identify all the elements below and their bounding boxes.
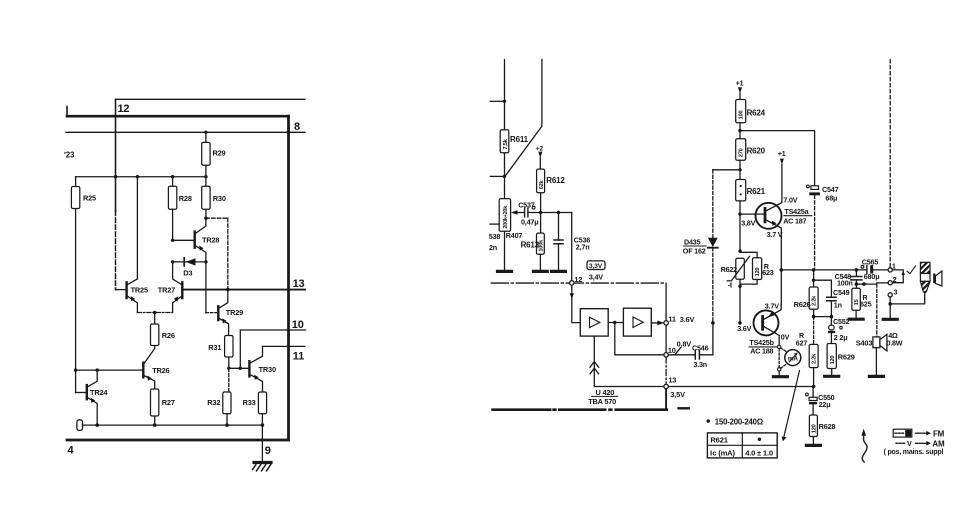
wire pin 8 line — [66, 131, 305, 133]
svg-text:150-200-240Ω: 150-200-240Ω — [715, 418, 763, 427]
potentiometer R407 200k+20k — [499, 199, 510, 232]
wire thick bottom boundary dash-dot — [493, 408, 667, 411]
svg-text:10: 10 — [668, 346, 676, 355]
svg-text:D435: D435 — [684, 237, 701, 246]
svg-text:TR27: TR27 — [158, 286, 175, 295]
resistor R29 — [205, 132, 207, 176]
wire IC boundary column x666 — [665, 283, 667, 321]
wire speaker feed from jack contact 2 — [876, 284, 878, 337]
node junction dot R29 top — [204, 131, 207, 134]
svg-text:+1: +1 — [736, 80, 744, 87]
svg-text:3: 3 — [894, 290, 898, 297]
transistor TS425a AC187 — [756, 203, 782, 229]
wire dashed link to TR29 collector column — [206, 217, 228, 219]
node dot + stub y176 — [503, 175, 506, 178]
svg-text:120: 120 — [811, 424, 817, 433]
svg-text:R29: R29 — [213, 149, 226, 158]
svg-text:+1: +1 — [778, 151, 786, 158]
jack contact 1 — [888, 268, 892, 272]
svg-text:I c (mA): I c (mA) — [710, 448, 735, 457]
legend dashed-V AM — [896, 442, 906, 444]
wire top right supply vertical — [889, 60, 891, 268]
svg-text:R620: R620 — [747, 147, 766, 156]
ground bar R613 — [534, 270, 548, 273]
svg-text:R612: R612 — [546, 176, 565, 185]
svg-text:R28: R28 — [179, 194, 192, 203]
node pin 12 label — [118, 103, 130, 115]
resistor R620 270 — [736, 139, 746, 160]
table R621 / Ic — [707, 433, 777, 458]
capacitor C548 100n + resistor R625 15 — [855, 270, 857, 276]
svg-text:2,7n: 2,7n — [576, 243, 590, 252]
diode D435 OF162 — [712, 170, 714, 238]
svg-text:U 420: U 420 — [596, 388, 615, 397]
node junction dot pin8 at border — [287, 131, 291, 135]
resistor R623 120 — [753, 258, 762, 280]
text note 150-200-240 ohm — [707, 419, 710, 422]
wire amp1 tap down to node 10 — [615, 323, 664, 355]
svg-text:11: 11 — [293, 350, 304, 362]
node dot + wire to C547 column — [738, 129, 741, 132]
wire internal supply rail — [76, 176, 206, 178]
svg-text:10: 10 — [292, 319, 304, 331]
resistor R624 100 — [736, 100, 746, 123]
svg-text:TS425a: TS425a — [784, 207, 809, 216]
svg-text:R628: R628 — [819, 422, 836, 431]
svg-text:TR29: TR29 — [226, 308, 243, 317]
node pin 8 label — [294, 121, 300, 133]
wire link to C549 column — [814, 316, 832, 318]
wire pin12 vertical to TR25 base — [115, 99, 117, 211]
svg-text:AC 188: AC 188 — [750, 347, 773, 356]
transistor TR30 — [248, 361, 250, 376]
svg-text:+2: +2 — [536, 145, 544, 152]
svg-text:R27: R27 — [162, 398, 175, 407]
meter mA — [785, 350, 801, 366]
text pos mains suppl — [884, 449, 944, 456]
svg-text:OF 162: OF 162 — [683, 247, 706, 256]
resistor R629 120 — [827, 344, 836, 369]
svg-text:623: 623 — [762, 268, 774, 277]
wire D3 column down to TR29 base — [205, 262, 207, 313]
svg-text:120: 120 — [830, 356, 836, 365]
svg-text:200k+20k: 200k+20k — [503, 206, 509, 229]
transistor TS425b AC188 — [754, 310, 779, 335]
node dot R30 bottom / TR28 collector — [204, 217, 207, 220]
earpiece symbol — [933, 274, 935, 284]
svg-text:R407: R407 — [506, 231, 523, 240]
svg-text:R621: R621 — [710, 436, 728, 445]
wire between amps — [608, 322, 623, 324]
wire chevron feedback line amp1 to node13 — [594, 336, 664, 386]
svg-text:680μ: 680μ — [864, 272, 880, 281]
transistor TR24 — [86, 385, 88, 399]
wire bottom emitter rail — [83, 424, 263, 426]
svg-text:TR24: TR24 — [90, 388, 108, 397]
capacitor C565 680u — [861, 265, 864, 268]
jack switch check symbol — [907, 266, 916, 274]
resistor R622 NTC — [738, 249, 741, 252]
text U420 TBA570 — [596, 388, 615, 397]
svg-text:0,8V: 0,8V — [677, 340, 692, 349]
svg-text:R626: R626 — [794, 300, 811, 309]
resistor R611 7.5k — [500, 130, 509, 153]
svg-text:TBA 570: TBA 570 — [588, 397, 616, 406]
capacitor C537 0.47u — [518, 200, 535, 209]
resistor R32 — [223, 392, 231, 414]
resistor R26 — [154, 313, 156, 349]
svg-text:2n: 2n — [489, 243, 497, 252]
svg-text:R25: R25 — [83, 194, 96, 203]
svg-text:13: 13 — [293, 278, 305, 290]
svg-text:12: 12 — [118, 103, 130, 115]
svg-text:D3: D3 — [183, 269, 192, 278]
svg-text:2.2k: 2.2k — [812, 295, 818, 306]
wire node12 column — [571, 213, 573, 281]
svg-text:( pos, mains. suppl: ( pos, mains. suppl — [884, 449, 944, 456]
svg-text:3.3n: 3.3n — [693, 360, 707, 369]
supply arrow +1 (R624) — [736, 80, 744, 87]
node rail dots — [114, 175, 117, 178]
svg-text:R622: R622 — [721, 265, 738, 274]
resistor R627 2.2k — [813, 317, 815, 345]
svg-text:3,8V: 3,8V — [741, 218, 755, 227]
resistor R612 62k — [537, 169, 545, 193]
wire thick top supply line — [67, 115, 289, 118]
svg-text:3,4V: 3,4V — [589, 273, 603, 282]
capacitor C549 1n — [814, 280, 832, 297]
svg-text:V: V — [907, 439, 912, 448]
node dot + stub y101 — [503, 100, 506, 103]
svg-text:C552: C552 — [833, 317, 850, 326]
svg-text:9: 9 — [265, 445, 271, 457]
wire thick right border — [287, 116, 290, 440]
bus dash-dot boundary line — [491, 282, 666, 284]
svg-text:3.6V: 3.6V — [737, 324, 751, 333]
resistor R27 — [151, 389, 159, 416]
resistor R31 — [225, 336, 233, 358]
ground earth symbol pin 9 — [254, 461, 271, 464]
transistor TR26 — [142, 363, 144, 378]
svg-text:R613: R613 — [521, 241, 540, 250]
wire pin 11 line — [263, 345, 306, 347]
supply arrow +2 — [536, 145, 544, 152]
svg-text:120: 120 — [755, 267, 761, 276]
svg-text:3,5V: 3,5V — [670, 390, 685, 399]
svg-text:3.7V: 3.7V — [765, 302, 779, 311]
capacitor C547 68u electrolytic — [807, 185, 810, 188]
node dots D3 ends — [171, 260, 174, 263]
svg-text:ʹ23: ʹ23 — [64, 151, 75, 160]
jack body hatched — [920, 262, 930, 273]
wire stub tick at left end — [66, 107, 68, 117]
svg-text:3,3V: 3,3V — [589, 263, 603, 270]
svg-text:62k: 62k — [539, 179, 545, 189]
wire TR26 base line — [76, 369, 144, 371]
svg-text:R624: R624 — [747, 108, 766, 117]
svg-text:TR28: TR28 — [202, 236, 219, 245]
svg-text:TR25: TR25 — [131, 286, 148, 295]
svg-text:S403: S403 — [856, 338, 873, 347]
svg-text:R621: R621 — [747, 187, 766, 196]
speaker S403 4ohm 0.8W — [873, 337, 880, 348]
component small box bottom-left — [77, 420, 83, 431]
svg-text:R26: R26 — [162, 331, 175, 340]
node 11 open circle — [664, 321, 668, 325]
capacitor C550 22u electrolytic — [812, 387, 814, 398]
node dot C537 line — [539, 211, 542, 214]
capacitor C552 2.2u electrolytic — [830, 317, 832, 326]
svg-text:FM: FM — [933, 429, 945, 438]
text 3.4V — [589, 273, 603, 282]
transistor TR27 — [181, 282, 183, 298]
wire node12 down with arrow — [572, 285, 581, 323]
amplifier block 1 — [580, 309, 608, 336]
svg-text:R611: R611 — [510, 135, 529, 144]
svg-text:R33: R33 — [243, 398, 256, 407]
svg-text:2.2k: 2.2k — [812, 353, 818, 364]
arrow from table to meter — [784, 371, 800, 437]
capacitor C546 3.3n — [668, 354, 695, 356]
svg-text:627: 627 — [796, 338, 808, 347]
voltage box 3.3V — [587, 261, 605, 270]
svg-text:TR30: TR30 — [259, 365, 276, 374]
svg-text:8: 8 — [294, 121, 300, 133]
svg-text:0,47μ: 0,47μ — [521, 218, 538, 227]
wire left vertical supply column — [504, 60, 506, 199]
node dot TR28 base tee — [171, 239, 174, 242]
svg-text:7.0V: 7.0V — [783, 195, 797, 204]
svg-text:0.8W: 0.8W — [886, 338, 902, 347]
svg-text:3.6V: 3.6V — [680, 315, 695, 324]
svg-text:7,5k: 7,5k — [503, 138, 509, 149]
wire second vertical + diagonal — [505, 60, 542, 176]
resistor R28 — [172, 177, 174, 241]
transistor TR25 — [125, 282, 127, 298]
svg-text:13: 13 — [668, 376, 676, 385]
ground bar R407 — [498, 270, 512, 273]
svg-text:1n: 1n — [834, 300, 842, 309]
wire pin 10 line — [240, 329, 305, 331]
svg-text:R629: R629 — [838, 352, 855, 361]
resistor R613 100k — [537, 233, 545, 254]
text C538 partial labels — [489, 232, 501, 252]
wire thick bottom border — [67, 439, 289, 442]
svg-text:270: 270 — [739, 148, 745, 157]
svg-text:C549: C549 — [833, 288, 850, 297]
diode D3 — [173, 261, 206, 263]
resistor R30 — [205, 177, 207, 219]
node 13 open circle — [664, 384, 668, 388]
node dot TS425a base tee — [738, 212, 741, 215]
wire emitters join dash-dot — [137, 312, 172, 314]
transistor TR28 — [193, 232, 195, 248]
node 12 open circle — [570, 281, 574, 285]
resistor R33 — [258, 392, 266, 414]
wire output rail — [781, 269, 866, 271]
svg-text:2 2μ: 2 2μ — [834, 333, 848, 342]
svg-text:AC 187: AC 187 — [783, 216, 806, 225]
jack contact 2 — [888, 281, 892, 285]
svg-text:0V: 0V — [781, 333, 790, 342]
wire pin12 top thin line — [116, 98, 306, 100]
svg-text:2: 2 — [893, 277, 897, 284]
svg-text:4.0 ± 1.0: 4.0 ± 1.0 — [745, 448, 773, 457]
wavy mains arrow — [862, 436, 867, 463]
wire TR30 base line — [229, 367, 250, 369]
svg-text:3.7 V: 3.7 V — [767, 230, 783, 239]
transistor TR29 — [217, 306, 219, 320]
wire pin 13 line — [182, 289, 305, 291]
svg-text:12: 12 — [574, 275, 582, 284]
svg-text:R31: R31 — [208, 343, 221, 352]
svg-text:R30: R30 — [213, 194, 226, 203]
svg-text:22μ: 22μ — [819, 400, 831, 409]
capacitor C536 2.7n — [557, 211, 560, 214]
wire node13 line to C550 — [668, 386, 813, 388]
svg-text:11: 11 — [668, 314, 676, 323]
svg-text:100: 100 — [739, 110, 745, 119]
node dot TR29 collector on pin13 line — [226, 288, 230, 292]
svg-text:C565: C565 — [862, 258, 879, 267]
svg-text:68μ: 68μ — [825, 194, 837, 203]
resistor R25 — [75, 177, 77, 393]
wire amp2 output arrow to node 11 — [651, 322, 663, 324]
svg-text:100n: 100n — [837, 278, 853, 287]
svg-text:C546: C546 — [692, 343, 709, 352]
wire R31 bottom to R32 — [228, 368, 230, 392]
amplifier block 2 — [623, 308, 651, 336]
node 10 open circle — [664, 353, 668, 357]
resistor R628 120 — [809, 415, 817, 437]
svg-text:625: 625 — [860, 299, 872, 308]
legend boxed dashed-V FM — [893, 429, 912, 437]
wire pin 9 down — [261, 425, 263, 462]
node dot D435 link — [738, 168, 741, 171]
svg-text:100k: 100k — [539, 239, 545, 252]
svg-text:538: 538 — [489, 232, 501, 241]
test point circles + ground on TS425b collector — [778, 345, 781, 348]
resistor R626 2.2k — [813, 270, 815, 287]
resistor R621 (selected) — [736, 180, 746, 201]
text partial label R23 — [64, 151, 75, 160]
jack contact 3 — [888, 293, 892, 297]
svg-text:AM: AM — [932, 439, 945, 448]
svg-text:R32: R32 — [207, 398, 220, 407]
svg-text:TR26: TR26 — [152, 366, 169, 375]
